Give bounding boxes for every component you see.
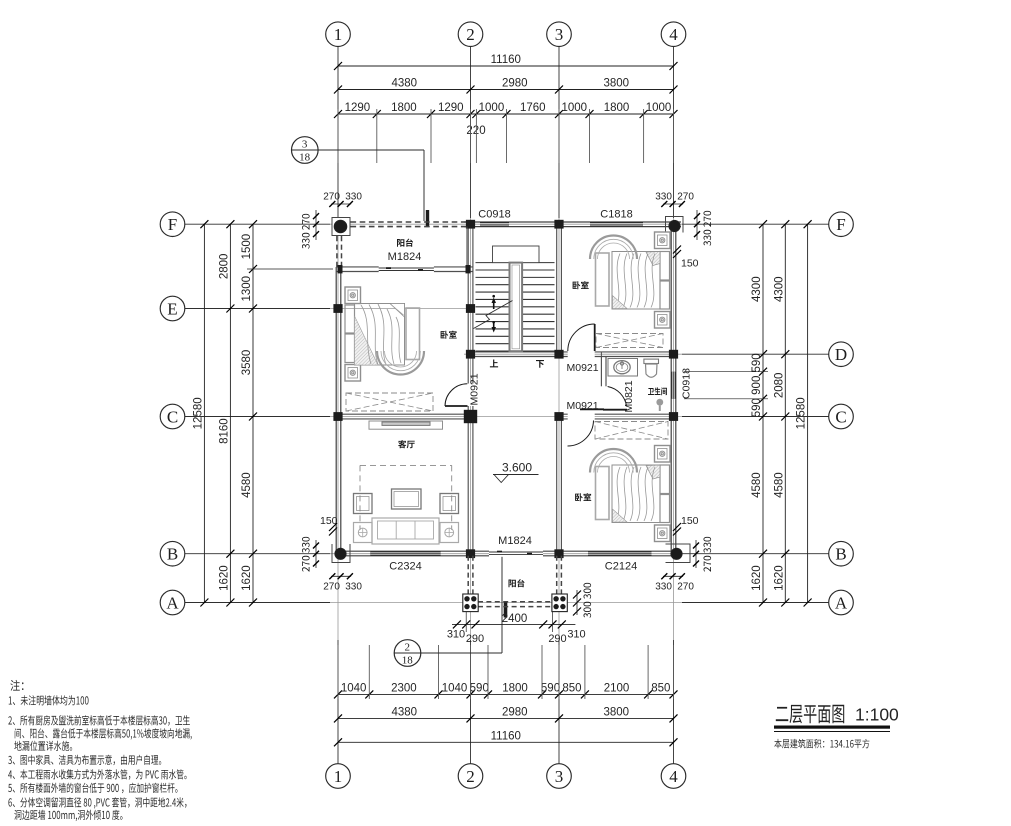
svg-text:M0921: M0921	[469, 373, 481, 405]
floor drain bathroom	[656, 399, 663, 406]
wall F top	[464, 221, 681, 223]
stair stringer	[510, 263, 523, 352]
grid line E	[185, 308, 330, 310]
dim chain top row3	[338, 113, 674, 115]
stair treads	[476, 262, 555, 264]
svg-text:330: 330	[655, 582, 672, 593]
window C1818 top	[590, 222, 643, 227]
stair arrow up	[493, 300, 495, 309]
section cut bar bottom	[504, 601, 508, 618]
svg-text:1290: 1290	[438, 102, 464, 114]
corner column top-right	[666, 217, 684, 233]
label living room	[398, 440, 415, 448]
grid line 2	[470, 47, 472, 219]
door opening M1824 bottom	[489, 550, 543, 557]
grid bubble A left	[160, 590, 185, 615]
section mark 3/18	[292, 137, 319, 164]
svg-text:A: A	[835, 594, 848, 613]
svg-text:1620: 1620	[751, 565, 763, 591]
grid bubble 4 top	[661, 22, 686, 47]
window C2124 bottom	[588, 551, 652, 556]
svg-text:B: B	[167, 545, 178, 564]
svg-text:11160: 11160	[491, 54, 521, 66]
dim 2400 line	[452, 623, 575, 625]
svg-text:B: B	[835, 545, 846, 564]
grid bubble B left	[160, 541, 185, 566]
svg-text:2: 2	[466, 767, 475, 786]
grid line F	[185, 223, 330, 225]
grid bubble E left	[160, 296, 185, 321]
balcony rail top dashed	[351, 221, 469, 223]
label bedroom BR	[575, 493, 591, 501]
balcony left rail dashed	[336, 236, 338, 267]
balcony sep end blocks	[338, 265, 343, 273]
grid line D	[464, 353, 682, 355]
extension line right 371	[684, 371, 768, 373]
svg-text:1620: 1620	[773, 565, 785, 591]
svg-text:A: A	[166, 594, 179, 613]
svg-text:1300: 1300	[241, 276, 253, 302]
corner dim bottom-left	[331, 575, 351, 577]
corner dim bottom-right	[663, 575, 683, 577]
svg-text:2100: 2100	[604, 682, 630, 694]
label up	[490, 360, 498, 368]
corner dim top-right	[663, 203, 683, 205]
svg-text:590: 590	[470, 682, 489, 694]
balcony column left	[463, 594, 478, 612]
door M0921 bedroom TL	[445, 405, 468, 407]
stair arrow down	[493, 321, 495, 330]
grid bubble 1 bottom	[326, 764, 351, 789]
title underline	[774, 726, 890, 729]
svg-text:900: 900	[751, 376, 763, 395]
svg-text:M0921: M0921	[567, 362, 599, 374]
svg-text:4300: 4300	[773, 276, 785, 302]
svg-text:2300: 2300	[391, 682, 417, 694]
svg-text:330: 330	[345, 192, 362, 203]
window C0918 top	[480, 222, 509, 227]
svg-text:1620: 1620	[218, 565, 230, 591]
wall grid3 upper	[556, 227, 558, 352]
svg-text:C: C	[835, 408, 846, 427]
svg-text:850: 850	[651, 682, 670, 694]
svg-text:590: 590	[751, 398, 763, 417]
svg-text:1000: 1000	[479, 102, 505, 114]
svg-text:1:100: 1:100	[855, 705, 899, 725]
svg-text:850: 850	[562, 682, 581, 694]
svg-text:4300: 4300	[751, 276, 763, 302]
grid bubble 1 top	[326, 22, 351, 47]
balcony rail bottom horiz dashed	[478, 601, 552, 603]
svg-text:3: 3	[302, 139, 308, 151]
svg-text:4580: 4580	[751, 472, 763, 498]
svg-text:1620: 1620	[241, 565, 253, 591]
svg-text:18: 18	[299, 152, 311, 164]
svg-text:310: 310	[567, 629, 585, 641]
dim chain bottom row2	[338, 717, 674, 719]
dim chain top row2	[338, 89, 674, 91]
grid bubble 2 top	[458, 22, 483, 47]
door M0921 bedroom TR	[594, 324, 596, 351]
svg-text:E: E	[167, 300, 177, 319]
svg-text:C2124: C2124	[605, 561, 637, 573]
svg-text:4380: 4380	[391, 706, 417, 718]
grid bubble A right	[829, 590, 854, 615]
svg-text:1800: 1800	[502, 682, 528, 694]
door opening M1824 top	[379, 266, 434, 273]
svg-text:290: 290	[466, 633, 484, 645]
section cut bar top	[426, 210, 429, 227]
svg-text:2980: 2980	[502, 706, 528, 718]
svg-text:3: 3	[555, 25, 564, 44]
label bedroom TR	[573, 281, 589, 289]
column block C2 large	[464, 410, 477, 423]
svg-text:D: D	[835, 345, 847, 364]
wall right X4	[670, 227, 672, 552]
svg-text:330: 330	[655, 192, 672, 203]
grid bubble B right	[829, 541, 854, 566]
svg-text:150: 150	[681, 258, 699, 270]
label balcony top	[397, 239, 413, 247]
notes text block	[10, 680, 23, 691]
svg-text:F: F	[168, 215, 177, 234]
door opening M0921 top	[568, 351, 595, 358]
svg-text:2800: 2800	[218, 254, 230, 280]
grid line 4	[673, 47, 675, 219]
wall C right	[557, 413, 676, 415]
svg-text:C0918: C0918	[681, 368, 693, 399]
corner dim top-left	[331, 203, 351, 205]
svg-text:C2324: C2324	[389, 561, 421, 573]
door M0921 bedroom BR	[580, 408, 604, 410]
svg-text:M0921: M0921	[567, 400, 599, 412]
toilet and sink bathroom	[608, 359, 638, 377]
svg-text:270: 270	[323, 192, 340, 203]
svg-text:4580: 4580	[241, 472, 253, 498]
wall left X1	[335, 267, 337, 551]
svg-text:11160: 11160	[491, 730, 521, 742]
svg-text:1040: 1040	[442, 682, 468, 694]
svg-text:1000: 1000	[646, 102, 672, 114]
title text	[776, 705, 844, 724]
corner column bottom-right	[666, 544, 691, 563]
svg-text:3800: 3800	[603, 78, 629, 90]
label bedroom TL	[441, 331, 457, 339]
svg-text:12580: 12580	[796, 397, 808, 429]
wall grid3 lower	[556, 419, 558, 551]
svg-text:2: 2	[405, 642, 411, 654]
wall D	[468, 351, 640, 353]
svg-text:4580: 4580	[773, 472, 785, 498]
wall column blocks	[466, 220, 475, 229]
svg-text:1: 1	[334, 25, 343, 44]
wardrobe BR	[595, 422, 668, 440]
dim chain left outer	[203, 224, 205, 602]
wall bathroom partition	[600, 357, 602, 387]
grid bubble 3 top	[547, 22, 572, 47]
grid line 3	[558, 47, 560, 219]
wall B bottom	[336, 550, 676, 552]
svg-text:310: 310	[447, 629, 465, 641]
svg-text:4380: 4380	[391, 78, 417, 90]
wall grid2	[467, 227, 469, 552]
stair landing	[493, 246, 540, 263]
wall D right part	[640, 351, 676, 353]
dim chain top row1	[338, 65, 674, 67]
extension lines bottom	[337, 645, 339, 699]
dim chain left mid	[229, 224, 231, 602]
balcony rail bottom right dashed	[556, 556, 558, 594]
dim chain right mid	[784, 224, 786, 602]
door opening grid2	[467, 384, 474, 407]
dim label 300 300 right	[584, 583, 592, 618]
svg-text:1: 1	[334, 767, 343, 786]
grid bubble D right	[829, 342, 854, 367]
svg-text:2: 2	[466, 25, 475, 44]
svg-text:3: 3	[555, 767, 564, 786]
label bathroom	[648, 387, 667, 395]
grid line 1	[337, 47, 339, 219]
grid bubble 3 bottom	[547, 764, 572, 789]
svg-text:290: 290	[548, 633, 566, 645]
svg-text:1000: 1000	[561, 102, 587, 114]
svg-text:2980: 2980	[502, 78, 528, 90]
section mark 2/18	[394, 640, 421, 667]
svg-text:M1824: M1824	[388, 251, 422, 263]
svg-text:8160: 8160	[218, 418, 230, 444]
svg-text:F: F	[836, 215, 845, 234]
grid bubble F right	[829, 212, 854, 237]
balcony column right	[552, 594, 567, 612]
elevation mark 3.600	[493, 474, 539, 476]
svg-text:12580: 12580	[192, 397, 204, 429]
svg-text:2400: 2400	[502, 613, 528, 625]
door opening M0921 bottom	[568, 413, 595, 420]
grid bubble 4 bottom	[661, 764, 686, 789]
dim chain right outer	[807, 224, 809, 602]
bed bedroom TL	[345, 287, 361, 304]
label balcony bottom	[509, 579, 525, 587]
bed bedroom TR	[655, 232, 671, 249]
extension lines top	[337, 109, 339, 163]
grid bubble C right	[829, 404, 854, 429]
svg-text:C0918: C0918	[478, 209, 510, 221]
window C2324 bottom	[370, 551, 440, 556]
svg-text:3800: 3800	[603, 706, 629, 718]
svg-text:590: 590	[541, 682, 560, 694]
grid bubble C left	[160, 404, 185, 429]
svg-text:4: 4	[669, 25, 678, 44]
label down	[536, 360, 544, 368]
svg-text:1500: 1500	[241, 234, 253, 260]
svg-text:C: C	[167, 408, 178, 427]
dim chain right inner	[762, 224, 764, 602]
extension line left 269	[247, 268, 333, 270]
bed bedroom BR	[655, 446, 671, 463]
grid bubble 2 bottom	[458, 764, 483, 789]
grid line C	[185, 416, 330, 418]
door M1824 top sill	[379, 267, 434, 269]
door M0821 bathroom	[603, 409, 627, 411]
svg-text:150: 150	[681, 515, 699, 527]
svg-text:270: 270	[323, 582, 340, 593]
svg-text:1760: 1760	[520, 102, 546, 114]
balcony top inner edge	[466, 227, 468, 267]
svg-text:1040: 1040	[341, 682, 367, 694]
corner column top-left	[332, 218, 350, 236]
wall bathroom partition top join	[600, 352, 602, 357]
svg-text:1800: 1800	[391, 102, 417, 114]
dim chain left inner	[252, 224, 254, 602]
grid line B	[185, 553, 330, 555]
window C0918 right	[671, 372, 676, 399]
svg-text:590: 590	[751, 353, 763, 372]
wardrobe TL	[346, 393, 433, 411]
svg-text:1290: 1290	[345, 102, 371, 114]
sofa set living room	[369, 421, 443, 429]
title area text	[774, 739, 869, 749]
wardrobe TR	[596, 334, 663, 348]
grid bubble F left	[160, 212, 185, 237]
svg-text:1800: 1800	[604, 102, 630, 114]
dim chain bottom row1	[338, 741, 674, 743]
svg-text:270: 270	[677, 192, 694, 203]
svg-text:330: 330	[345, 582, 362, 593]
svg-text:2080: 2080	[773, 373, 785, 399]
svg-text:3.600: 3.600	[502, 461, 532, 475]
stair break line	[474, 301, 513, 329]
svg-text:M1824: M1824	[498, 535, 532, 547]
wall balcony top sep	[336, 266, 473, 268]
grid line A	[185, 602, 330, 604]
wall C left	[336, 413, 473, 415]
svg-text:C1818: C1818	[600, 209, 632, 221]
extension line right 398	[684, 398, 768, 400]
svg-text:270: 270	[677, 582, 694, 593]
corner column bottom-left	[332, 544, 350, 563]
svg-text:18: 18	[402, 655, 414, 667]
svg-text:3580: 3580	[241, 350, 253, 376]
svg-text:M0821: M0821	[623, 380, 635, 412]
balcony rail bottom left dashed	[467, 556, 469, 594]
svg-text:4: 4	[669, 767, 678, 786]
dim chain bottom row3	[338, 693, 674, 695]
